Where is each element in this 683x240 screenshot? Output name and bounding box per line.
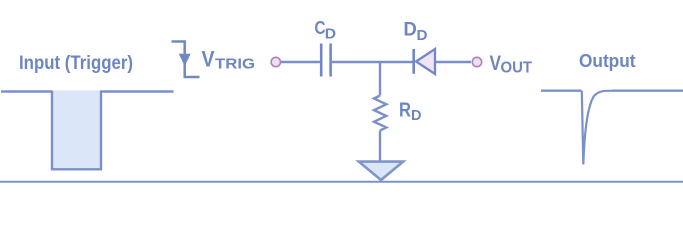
label DD xyxy=(404,20,428,44)
label RD xyxy=(399,100,422,124)
trigger falling-edge symbol xyxy=(172,42,200,78)
label CD xyxy=(315,17,337,42)
svg-text:Output: Output xyxy=(579,50,636,71)
node VTRIG input terminal xyxy=(271,57,280,66)
output waveform baseline left segment xyxy=(541,89,582,91)
output waveform baseline right segment xyxy=(612,89,683,91)
svg-text:R: R xyxy=(399,100,411,122)
input waveform baseline left segment xyxy=(1,90,52,92)
wire diode to node VOUT xyxy=(436,61,471,63)
input waveform baseline right segment xyxy=(101,90,174,92)
input pulse (filled notch) xyxy=(52,91,101,170)
wire resistor to ground xyxy=(379,131,381,162)
capacitor CD plates xyxy=(321,44,330,77)
node VOUT output terminal xyxy=(472,57,481,66)
label VOUT xyxy=(490,52,533,77)
svg-text:D: D xyxy=(404,20,417,41)
junction node at RD xyxy=(379,62,381,96)
ground symbol (filled triangle) xyxy=(359,162,403,180)
resistor RD zigzag xyxy=(374,96,386,131)
bottom border line xyxy=(0,181,683,183)
diode DD cathode bar xyxy=(412,49,415,74)
svg-text:TRIG: TRIG xyxy=(215,56,255,73)
wire node1 to capacitor xyxy=(281,61,320,63)
output waveform spike (drop and exponential recovery) xyxy=(582,91,612,165)
svg-text:D: D xyxy=(411,107,422,124)
svg-text:V: V xyxy=(202,47,215,72)
svg-text:D: D xyxy=(417,28,428,44)
svg-text:D: D xyxy=(325,26,336,42)
label VTRIG xyxy=(202,47,256,73)
svg-text:V: V xyxy=(490,52,502,75)
svg-text:OUT: OUT xyxy=(501,60,533,77)
diode DD triangle (pointing left) xyxy=(416,49,435,74)
wire capacitor to diode (through junction) xyxy=(332,61,413,63)
svg-text:Input (Trigger): Input (Trigger) xyxy=(19,53,133,74)
